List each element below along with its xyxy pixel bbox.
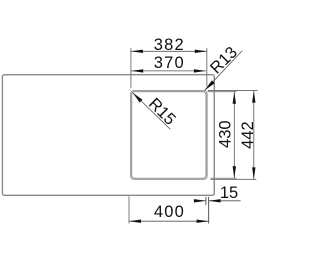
dimension 370 line <box>131 70 206 72</box>
svg-text:382: 382 <box>154 36 185 54</box>
dimension 15 line left part (all arrowhead) <box>194 200 206 202</box>
dimension 442 line <box>253 91 255 180</box>
extension line 15 left tick <box>205 197 207 205</box>
arrow 430 top <box>233 92 236 104</box>
arrow R15 <box>133 93 143 103</box>
arrow 370 right <box>194 69 206 72</box>
extension line bottom right horizontal (442) <box>211 178 257 180</box>
svg-text:430: 430 <box>217 120 235 148</box>
arrow 430 bottom <box>233 166 236 178</box>
svg-text:370: 370 <box>154 54 185 72</box>
arrow 400 right <box>197 220 209 223</box>
extension line left (382/370) <box>130 48 132 88</box>
arrow R13 <box>205 80 215 90</box>
arrow 15 right (pointing left) <box>209 199 221 202</box>
arrow 442 bottom <box>252 167 255 179</box>
extension line 400/15 right vertical <box>208 197 210 224</box>
arrow 400 left <box>129 220 141 223</box>
arrow 382 left <box>131 50 143 53</box>
sink outer footprint rectangle <box>2 75 214 196</box>
svg-text:442: 442 <box>239 121 257 149</box>
extension line bottom right horizontal (430) <box>211 177 237 179</box>
arrow 442 top <box>252 91 255 103</box>
leader R13 <box>205 51 243 91</box>
extension line right (382/370) <box>206 48 208 86</box>
extension line top right horizontal (442/430) <box>208 90 258 92</box>
bowl inner rim (370 x 430, R15) <box>132 92 206 179</box>
svg-text:15: 15 <box>220 184 238 202</box>
arrow 382 right <box>195 50 207 53</box>
dimension 400 line <box>129 220 209 222</box>
extension line 400 left vertical <box>128 196 130 223</box>
dimension 382 line <box>131 50 207 52</box>
arrow 370 left <box>131 69 143 72</box>
dimension 15 line right part <box>209 200 241 202</box>
leader R15 <box>133 93 171 130</box>
bowl outer rim (382 x 442, R13) <box>131 91 208 180</box>
extension line top right horizontal (430) <box>208 91 237 93</box>
svg-text:400: 400 <box>154 203 185 221</box>
arrow 15 left (pointing right) <box>194 199 206 202</box>
dimension 430 line <box>233 92 235 179</box>
